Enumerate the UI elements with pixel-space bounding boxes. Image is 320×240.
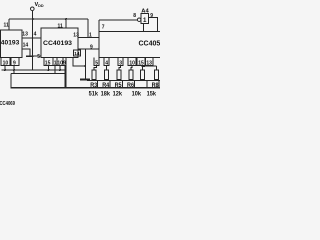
counter U2 CC40193 box xyxy=(41,28,78,58)
wire rail left drop to U1 pin11 xyxy=(8,19,10,30)
node junction ground net xyxy=(84,65,86,67)
wire VDD to U2 pin5 xyxy=(33,55,41,57)
wire drop to ground from pin14 net xyxy=(84,49,86,78)
svg-text:CC4069: CC4069 xyxy=(0,101,15,107)
pin cell U3 pin 15 xyxy=(137,58,145,66)
svg-text:R6: R6 xyxy=(127,83,135,89)
svg-text:9: 9 xyxy=(90,45,93,51)
node junction VDD-rail xyxy=(32,18,34,20)
svg-text:14: 14 xyxy=(74,51,80,57)
wire U3 pin7 up xyxy=(98,20,100,32)
svg-text:40193: 40193 xyxy=(1,40,20,47)
svg-text:9: 9 xyxy=(150,13,153,19)
resistor R7 body xyxy=(141,70,145,79)
svg-text:5: 5 xyxy=(95,60,98,66)
wire rail right drop xyxy=(87,19,89,37)
svg-text:51k: 51k xyxy=(89,92,99,98)
node junction at 15-13 net xyxy=(143,65,145,67)
wire R7 bottom lead xyxy=(142,79,144,80)
wire label-band separator a xyxy=(97,81,99,88)
node junction pin10-L1b xyxy=(59,69,61,71)
wire label-band separator f xyxy=(158,81,160,88)
wire rail drop to U2 pin11 xyxy=(65,19,67,28)
ground (U1 pin14) xyxy=(26,55,34,57)
inverter A4 box xyxy=(141,14,149,24)
wire U2 pin14 to U3 pin9 xyxy=(78,48,99,50)
pin cell U3 pin 13 xyxy=(146,58,154,66)
wire A4 bottom drop xyxy=(143,24,145,32)
wire bus L1 xyxy=(2,69,66,71)
svg-text:18k: 18k xyxy=(101,92,111,98)
svg-text:5: 5 xyxy=(37,54,40,60)
wire U1 pin13 to U2 pin4 xyxy=(22,37,41,39)
wire R5 bottom lead xyxy=(118,79,120,80)
wire bus L3 xyxy=(11,74,160,88)
mux U3 CC4051 box (cut at right) xyxy=(99,31,161,57)
wire U3 pin4 to R4 xyxy=(106,66,108,71)
svg-text:15: 15 xyxy=(138,60,144,66)
svg-text:DD: DD xyxy=(38,4,44,8)
pin cell U1 pin 10 xyxy=(1,58,10,66)
svg-text:1: 1 xyxy=(89,32,92,38)
pin cell U1 pin 9 xyxy=(11,58,19,66)
resistor R4 body xyxy=(105,70,109,79)
wire U1 pin14 to ground xyxy=(22,49,30,56)
wire U2 pin15 drop xyxy=(48,66,50,71)
ground (mux area) xyxy=(80,78,90,80)
wire bus L2 xyxy=(11,73,66,75)
inverter A4 bubble xyxy=(137,18,141,22)
resistor R6 body xyxy=(129,70,133,79)
resistor R8 body xyxy=(155,70,159,79)
pin cell U3 pin 3 xyxy=(118,58,123,66)
wire R6 bottom lead xyxy=(130,79,132,80)
svg-text:1: 1 xyxy=(54,60,57,66)
pin cell U3 pin 5 xyxy=(94,58,99,66)
wire label-band separator b xyxy=(109,81,111,88)
svg-text:CC40193: CC40193 xyxy=(43,40,73,47)
svg-text:15k: 15k xyxy=(147,92,157,98)
node junction pin9-L1 xyxy=(13,69,15,71)
svg-text:R8: R8 xyxy=(152,83,160,89)
wire U3 pin10 to R6 xyxy=(131,66,132,71)
node junction pin5 xyxy=(32,55,34,57)
svg-text:13: 13 xyxy=(73,33,79,39)
VDD rail xyxy=(9,18,88,20)
wire U3 pin13 to R8 xyxy=(149,66,156,71)
svg-text:9: 9 xyxy=(13,60,16,66)
svg-text:11: 11 xyxy=(4,23,10,29)
svg-text:13: 13 xyxy=(146,60,152,66)
wire U2 pin13 to U3 pin1 xyxy=(78,36,99,38)
wire A4 output xyxy=(149,18,158,32)
svg-text:A4: A4 xyxy=(141,8,149,14)
svg-text:14: 14 xyxy=(23,43,29,49)
wire VDD stem down xyxy=(32,11,34,70)
svg-text:3: 3 xyxy=(119,60,122,66)
wire R4 bottom lead xyxy=(106,79,108,80)
pin cell U2 pin 10 xyxy=(57,58,63,66)
wire U3 pin3 to R5 xyxy=(119,66,121,71)
svg-text:15: 15 xyxy=(45,60,51,66)
node junction pin10-L1 xyxy=(4,69,6,71)
svg-text:8: 8 xyxy=(133,13,136,19)
svg-text:11: 11 xyxy=(58,23,64,29)
svg-text:R4: R4 xyxy=(102,83,110,89)
svg-text:7: 7 xyxy=(102,25,105,31)
wire R3 bottom lead xyxy=(93,79,95,80)
wire label-band separator d xyxy=(134,81,136,88)
svg-text:R3: R3 xyxy=(90,83,98,89)
counter U1 CC40193 box (cut at left) xyxy=(1,30,22,58)
wire link 15-13 net xyxy=(141,65,157,67)
wire U3 pin15 to R7 xyxy=(141,66,143,71)
wire label-band separator e xyxy=(146,81,148,88)
wire U2 pin1 drop xyxy=(54,66,56,74)
svg-text:R5: R5 xyxy=(115,83,123,89)
svg-text:9: 9 xyxy=(63,60,66,66)
wire upper bus xyxy=(87,80,160,82)
svg-text:CC4051: CC4051 xyxy=(139,40,161,47)
pin cell U2 pin 1 xyxy=(53,58,57,66)
pin cell U3 pin 4 xyxy=(104,58,109,66)
svg-text:4: 4 xyxy=(34,32,37,38)
resistor R3 body xyxy=(92,70,96,79)
svg-text:10: 10 xyxy=(129,60,135,66)
svg-text:10k: 10k xyxy=(132,92,142,98)
wire U1 pin9 drop xyxy=(13,66,15,74)
svg-text:10: 10 xyxy=(3,60,9,66)
wire U2 bottom stub to ground node xyxy=(73,58,85,67)
svg-text:4: 4 xyxy=(105,60,108,66)
wire U2 pin9 drop to L3 xyxy=(65,66,67,88)
pin cell U3 pin 10 xyxy=(128,58,136,66)
svg-text:13: 13 xyxy=(22,32,28,38)
pin cell U2 pin 9 xyxy=(63,58,66,66)
node junction pin15-L1 xyxy=(48,69,50,71)
svg-text:1: 1 xyxy=(143,17,147,24)
pin cell U2 pin14 xyxy=(74,50,81,56)
wire U3 pin5 to R3 xyxy=(94,66,97,71)
wire label-band separator c xyxy=(122,81,124,88)
svg-text:12k: 12k xyxy=(113,92,123,98)
node junction rail-pin11 xyxy=(65,18,67,20)
wire U2 pin10 drop xyxy=(59,66,61,71)
wire U1 pin10 drop xyxy=(4,66,6,71)
wire pin7 to A4 input xyxy=(99,19,137,21)
wire R8 bottom lead xyxy=(156,79,158,80)
pin cell U2 pin 15 xyxy=(44,58,53,66)
resistor R5 body xyxy=(117,70,121,79)
power VDD terminal xyxy=(31,7,35,11)
